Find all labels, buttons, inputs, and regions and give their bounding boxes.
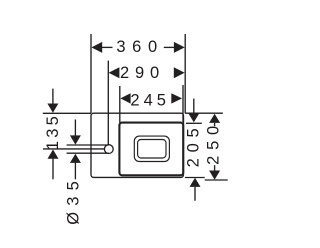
arrow 135 bottom (up) [48, 150, 59, 159]
body bottom extension right [185, 177, 205, 179]
hole tangent bottom line [67, 152, 109, 154]
extension line 245 right [182, 85, 184, 122]
bowl top extension right [186, 122, 202, 124]
bowl outline [119, 123, 183, 176]
svg-text:245: 245 [130, 91, 170, 109]
svg-text:290: 290 [120, 64, 165, 82]
body top extension right [185, 112, 223, 114]
arrow 360 right [174, 42, 185, 53]
arrow 250 bottom (down) [209, 171, 220, 180]
dim 135 lower tail [52, 158, 54, 179]
body top extension left [43, 112, 91, 114]
extension line 360 left [90, 34, 92, 113]
body outline [91, 113, 184, 177]
svg-text:205: 205 [185, 122, 203, 167]
dim d35 upper tail [74, 120, 76, 137]
arrow 250 top (up) [209, 114, 220, 123]
hole tangent top line [67, 144, 109, 146]
arrow d35 bottom (up) [70, 154, 81, 163]
dim 360 tail right [164, 46, 175, 48]
drain inner ring [138, 140, 166, 159]
dim d35 lower tail [74, 163, 76, 180]
arrow 245 left [120, 93, 130, 103]
drain outer ring [134, 136, 169, 161]
extension line 245 left [119, 86, 121, 123]
extension line 360/290 right [184, 34, 186, 113]
extension line 290 left / hole centerline [107, 61, 109, 145]
arrow 205 bottom (up) [190, 178, 201, 187]
svg-text:360: 360 [116, 38, 163, 56]
arrow 290 right [174, 67, 185, 78]
dim 205 upper tail [193, 99, 195, 114]
dim 205 lower tail [194, 187, 196, 201]
arrow 245 right [171, 93, 182, 103]
250 bottom extension [205, 179, 228, 181]
hole center extension line [43, 148, 104, 150]
arrow d35 top (down) [70, 135, 81, 144]
svg-text:250: 250 [204, 120, 222, 165]
dim 250 upper segment [214, 123, 216, 126]
svg-text:Ø35: Ø35 [65, 175, 83, 225]
svg-text:135: 135 [44, 113, 62, 150]
arrow 360 left [91, 42, 102, 53]
arrow 290 left [109, 67, 120, 78]
arrow 205 top (down) [188, 113, 199, 122]
arrow 135 top (down) [47, 104, 58, 113]
dim 360 tail left [102, 46, 113, 48]
dim 135 upper tail [52, 89, 54, 105]
dim 250 lower segment [214, 165, 216, 170]
hole circle [104, 145, 113, 154]
